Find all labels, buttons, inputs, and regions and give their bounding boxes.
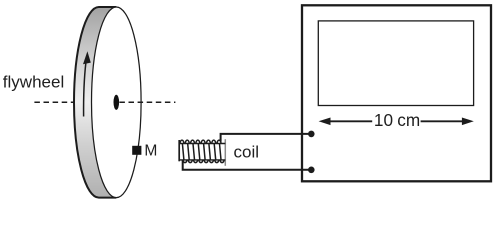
flywheel rim (cylinder side) bbox=[74, 7, 116, 198]
magnet M (black square) bbox=[132, 146, 141, 155]
terminal node top bbox=[308, 131, 315, 138]
oscilloscope screen bbox=[318, 21, 473, 106]
rotation arrow shaft bbox=[84, 63, 86, 117]
coil bottom loop arcs bbox=[183, 160, 224, 163]
coil left end bar bbox=[178, 140, 180, 161]
coil turn wires bbox=[182, 144, 221, 160]
dimension arrow right segment bbox=[421, 120, 464, 122]
dashed axis line right bbox=[119, 101, 175, 103]
svg-text:M: M bbox=[144, 143, 157, 160]
axle dot (node) bbox=[114, 95, 120, 110]
terminal node bottom bbox=[308, 167, 315, 174]
dimension arrow left head bbox=[319, 118, 331, 126]
dimension arrow right head bbox=[462, 118, 474, 126]
coil body bbox=[179, 139, 225, 166]
oscilloscope outer box bbox=[302, 5, 491, 181]
rotation arrow head bbox=[83, 51, 91, 64]
coil bottom rail bbox=[179, 159, 225, 161]
flywheel rim outer outline bbox=[74, 7, 116, 198]
coil top loop arcs bbox=[180, 140, 221, 143]
wire from coil bottom to oscilloscope bbox=[183, 160, 311, 170]
coil right end bar bbox=[224, 139, 226, 166]
dashed axis line left bbox=[34, 101, 74, 103]
svg-text:coil: coil bbox=[234, 143, 260, 162]
coil top rail bbox=[179, 143, 225, 145]
svg-text:flywheel: flywheel bbox=[3, 73, 64, 92]
dimension arrow left segment bbox=[329, 120, 373, 122]
flywheel front face (front ellipse) bbox=[92, 7, 142, 198]
svg-text:10cm: 10cm bbox=[374, 110, 420, 130]
wire from coil top to oscilloscope bbox=[221, 134, 311, 142]
